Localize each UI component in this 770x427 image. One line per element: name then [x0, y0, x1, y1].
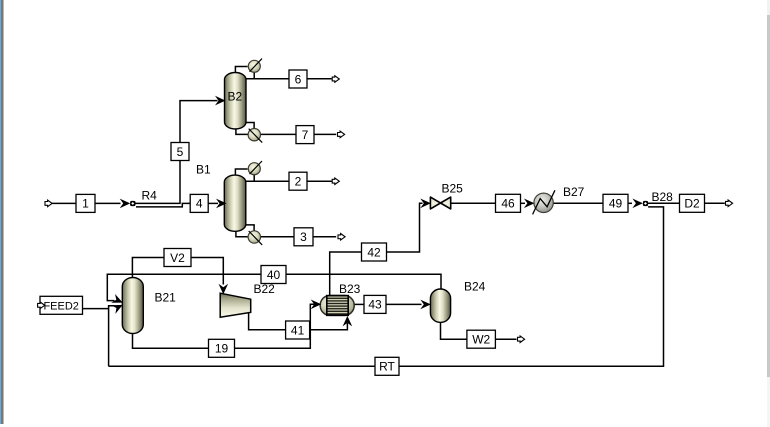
- svg-text:7: 7: [302, 128, 309, 142]
- reboiler of B2: [248, 129, 262, 143]
- flash drum B21: [122, 278, 143, 334]
- splitter B28: [643, 201, 648, 206]
- arrowhead streams FEED2/RT into B21: [111, 301, 125, 314]
- wire stream RT recycle long run: [109, 207, 664, 366]
- wire stream RT riser into B21: [109, 306, 115, 367]
- stream label box 5: [171, 143, 189, 161]
- wire stream 43 into B24: [386, 303, 422, 305]
- condenser of B2: [248, 59, 262, 73]
- window left border (blue strip): [0, 0, 1, 424]
- svg-text:B24: B24: [464, 280, 486, 294]
- wire B1 top to condenser: [235, 169, 247, 176]
- svg-text:2: 2: [295, 175, 302, 189]
- wire stream 43 from B23 right: [354, 303, 364, 305]
- valve B25: [430, 197, 450, 209]
- wire stream 5 from R4 up to column B2: [136, 101, 218, 204]
- svg-text:RT: RT: [379, 360, 395, 374]
- right scrollbar thumb: [767, 15, 770, 377]
- stream label box 4: [190, 194, 208, 212]
- arrowhead stream 1 into R4: [120, 199, 131, 209]
- svg-text:FEED2: FEED2: [43, 301, 78, 313]
- wire stream 40 from B24 top to B21 feed: [107, 274, 441, 300]
- heater B27: [533, 190, 555, 214]
- stream label box 42: [362, 243, 387, 261]
- svg-text:R4: R4: [142, 189, 158, 203]
- column B1 (RadFrac): [224, 175, 246, 231]
- svg-text:D2: D2: [684, 197, 700, 211]
- wire stream 7 to export: [314, 133, 336, 135]
- arrowhead stream 43 into B24: [420, 300, 431, 310]
- wire B2 reboiler left leg: [236, 128, 248, 134]
- svg-text:1: 1: [82, 197, 89, 211]
- svg-text:B23: B23: [339, 282, 361, 296]
- svg-text:B1: B1: [196, 163, 211, 177]
- wire stream 49 into splitter B28: [628, 202, 632, 204]
- svg-text:40: 40: [267, 268, 281, 282]
- svg-text:B28: B28: [652, 190, 674, 204]
- stream label box 19: [209, 339, 235, 357]
- heat exchanger B23: [320, 296, 354, 316]
- export arrow stream 2: [332, 178, 339, 185]
- wire B2 top to condenser: [235, 67, 247, 74]
- wire stream 49 from B27: [553, 202, 603, 204]
- svg-text:B27: B27: [563, 185, 585, 199]
- stream label box 41: [286, 321, 310, 339]
- svg-text:4: 4: [196, 197, 203, 211]
- stream label box 49: [603, 194, 628, 212]
- wire stream 3 to export: [313, 236, 336, 238]
- wire stream 6 to export: [307, 78, 332, 80]
- wire B2 bottom to reboiler: [246, 123, 255, 129]
- wire stream D2 to export: [705, 202, 725, 204]
- stream label box 46: [496, 194, 521, 212]
- stream label box D2: [680, 194, 705, 212]
- wire stream 42 from B23 top: [330, 252, 362, 296]
- wire stream 3 from reboiler to label box: [260, 236, 294, 238]
- wire stream 2 to export: [307, 180, 332, 182]
- stream label box 1: [76, 194, 95, 212]
- stream label box W2: [467, 330, 496, 348]
- wire stream 1 import segment: [52, 202, 77, 204]
- export arrow stream W2: [518, 336, 525, 343]
- arrowhead stream 19 into B23: [311, 300, 322, 310]
- svg-text:41: 41: [291, 323, 305, 337]
- svg-text:B22: B22: [254, 282, 276, 296]
- wire B1 bottom to reboiler: [246, 225, 255, 231]
- export arrow stream D2: [726, 200, 733, 207]
- wire stream 7 from reboiler to label box: [260, 133, 296, 135]
- stream label box FEED2: [40, 296, 83, 314]
- stream label box 40: [261, 266, 286, 284]
- svg-text:46: 46: [501, 197, 515, 211]
- arrowhead stream 40 into B21: [111, 294, 124, 307]
- wire B1 reboiler left leg: [236, 231, 248, 237]
- right scrollbar track top: [767, 0, 770, 15]
- wire stream W2 to export: [496, 338, 517, 340]
- wire stream 46 from valve B25: [451, 202, 496, 204]
- svg-text:42: 42: [367, 245, 381, 259]
- import arrow stream FEED2: [38, 302, 45, 309]
- arrowhead stream 46 into B27: [524, 199, 535, 209]
- column B2 (RadFrac): [225, 73, 247, 130]
- svg-text:3: 3: [300, 230, 307, 244]
- wire stream FEED2 to junction: [82, 308, 108, 310]
- wire stream 2 from B1 to label box: [246, 180, 290, 182]
- reboiler of B1: [248, 231, 262, 245]
- stream label box V2: [164, 249, 191, 267]
- wire stream 42 up to valve B25: [387, 203, 423, 252]
- export arrow stream 7: [338, 131, 345, 138]
- svg-text:V2: V2: [170, 251, 185, 265]
- export arrow stream 3: [338, 234, 345, 241]
- splitter R4: [130, 201, 135, 206]
- compressor B22: [220, 293, 251, 317]
- svg-text:5: 5: [177, 145, 184, 159]
- export arrow stream 6: [332, 76, 339, 83]
- stream label box 6: [289, 70, 307, 88]
- svg-text:43: 43: [368, 298, 382, 312]
- svg-text:B25: B25: [442, 182, 464, 196]
- condenser of B1: [248, 161, 262, 175]
- svg-text:49: 49: [609, 197, 623, 211]
- wire stream 4 from R4 to label box: [136, 203, 190, 207]
- arrowhead stream 4 into B1: [216, 199, 227, 209]
- wire B1 condenser down leg: [253, 174, 255, 181]
- import arrow stream 1: [45, 200, 52, 207]
- wire stream 19 into B23 left: [235, 304, 315, 348]
- wire stream V2 from B21 top to compressor B22: [132, 258, 223, 285]
- wire stream 19 from B21 bottom: [133, 333, 209, 348]
- wire stream 4 into column B1: [208, 202, 218, 204]
- wire stream 6 from B2 to label box: [246, 78, 290, 80]
- stream label box 2: [289, 172, 307, 190]
- stream label box 43: [364, 295, 386, 313]
- wire stream 1 into splitter R4: [95, 202, 121, 204]
- flash drum B24: [430, 289, 450, 322]
- wire stream 41 into B23 bottom: [310, 322, 348, 330]
- wire stream W2 from B24 bottom: [441, 322, 468, 339]
- svg-text:W2: W2: [472, 333, 490, 347]
- arrowhead stream 5 into B2: [215, 96, 226, 106]
- right scrollbar track bottom: [767, 377, 770, 427]
- wire stream D2 from splitter B28: [648, 202, 680, 204]
- arrowhead stream 42 into valve B25: [420, 199, 431, 209]
- svg-text:6: 6: [295, 72, 302, 86]
- arrowhead stream 41 into B23: [343, 316, 353, 327]
- stream label box 3: [294, 228, 313, 246]
- svg-text:B21: B21: [155, 291, 177, 305]
- arrowhead stream V2 into B22: [219, 284, 229, 295]
- stream label box RT: [375, 357, 399, 375]
- svg-text:19: 19: [215, 342, 229, 356]
- wire B2 condenser down leg: [253, 72, 255, 79]
- window left border (gray line): [1, 0, 3, 424]
- wire stream 41 from B22 outlet: [249, 313, 286, 330]
- arrowhead stream 49 into B28: [632, 199, 643, 209]
- svg-text:B2: B2: [228, 90, 243, 104]
- stream label box 7: [296, 126, 314, 144]
- wire stream 46 into heater B27: [521, 202, 526, 204]
